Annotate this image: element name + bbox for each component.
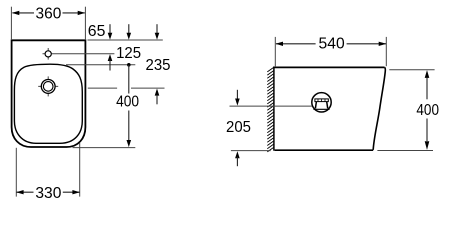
dim 540 left extension line [274, 37, 276, 66]
side profile front curve [373, 67, 385, 149]
drain level leader segment 2 [131, 87, 165, 89]
dim 235 bottom up arrow [155, 89, 160, 96]
svg-text:235: 235 [146, 57, 171, 74]
dim 400 (left view) vertical line lower [128, 111, 130, 141]
dim 360 right extension line [84, 7, 86, 40]
dim 360 left extension line [10, 7, 12, 40]
dim 330 line right segment [63, 191, 80, 193]
dim 330 left extension line [15, 148, 17, 197]
bottom leader line (left view) [73, 147, 136, 149]
junction dot on 400 dim line [127, 63, 131, 67]
dim 235 top down arrow [156, 24, 158, 35]
dim 360 left arrow [12, 11, 19, 15]
faucet hole crosshair horizontal / leader to 125 label [43, 53, 115, 55]
side profile bottom edge [275, 149, 374, 151]
svg-text:330: 330 [35, 185, 61, 202]
dim 540 line right segment [347, 43, 386, 45]
svg-text:400: 400 [416, 102, 439, 119]
dim 400 (side) top up arrow [425, 70, 430, 78]
drain symbol left leg [315, 102, 316, 109]
dim 400 (left view) vertical line upper [128, 65, 130, 94]
svg-text:400: 400 [116, 93, 139, 110]
dim 360 line right segment [63, 12, 85, 14]
dim 205 top down arrow [236, 90, 238, 99]
dim 400 (side) vertical line upper [426, 78, 428, 100]
leader from bowl top to 125 [66, 64, 135, 66]
drain inner circle [43, 82, 53, 92]
dim 360 line left segment [13, 12, 35, 14]
drain crosshair vertical [47, 76, 49, 96]
dim 360 right arrow [78, 11, 86, 15]
floor reference line left [231, 150, 271, 152]
svg-text:205: 205 [226, 119, 251, 136]
dim 205 leader line [230, 105, 313, 107]
dim 540 line left segment [276, 43, 316, 45]
faucet hole circle [45, 51, 51, 57]
dim 400 (side) bottom down arrow [425, 141, 430, 150]
dim 330 right arrow [72, 190, 80, 194]
dim 330 line left segment [17, 191, 34, 193]
svg-text:125: 125 [116, 45, 141, 62]
side profile top edge [273, 66, 384, 68]
drain symbol right leg [327, 102, 328, 109]
dim 125 top down arrow [128, 24, 130, 35]
svg-text:360: 360 [36, 5, 62, 22]
drain symbol top bar [315, 99, 328, 102]
basin inner bowl (plan view) [14, 64, 82, 143]
dim 540 right extension line [385, 37, 387, 66]
dim 330 left arrow [16, 190, 24, 194]
dim 400 (side) vertical line lower [426, 119, 428, 142]
drain crosshair horizontal [38, 85, 58, 87]
svg-text:65: 65 [88, 23, 106, 40]
faucet hole crosshair vertical [47, 48, 49, 60]
dim 400 (left view) bottom down arrow [127, 140, 132, 147]
drain level leader segment 1 [88, 87, 117, 89]
basin outer shell (plan view) [12, 40, 86, 147]
svg-text:540: 540 [319, 36, 345, 53]
dim 540 right arrow [379, 42, 387, 46]
dim 205 bottom up arrow [235, 151, 240, 158]
drain symbol chord [313, 108, 329, 110]
floor reference line right [377, 150, 433, 152]
dim 540 left arrow [276, 42, 284, 46]
dim 330 right extension line [79, 143, 81, 197]
dim 65 bottom up arrow [108, 54, 113, 61]
top reference line (back edge extended) [88, 39, 163, 41]
dim 65 top down arrow [109, 24, 111, 35]
drain symbol circle (side view) [312, 93, 331, 112]
wall line (side view) [273, 67, 275, 151]
wall hatching [267, 68, 273, 152]
dim 400 (side) top reference line [389, 69, 434, 71]
drain outer circle [41, 80, 55, 94]
